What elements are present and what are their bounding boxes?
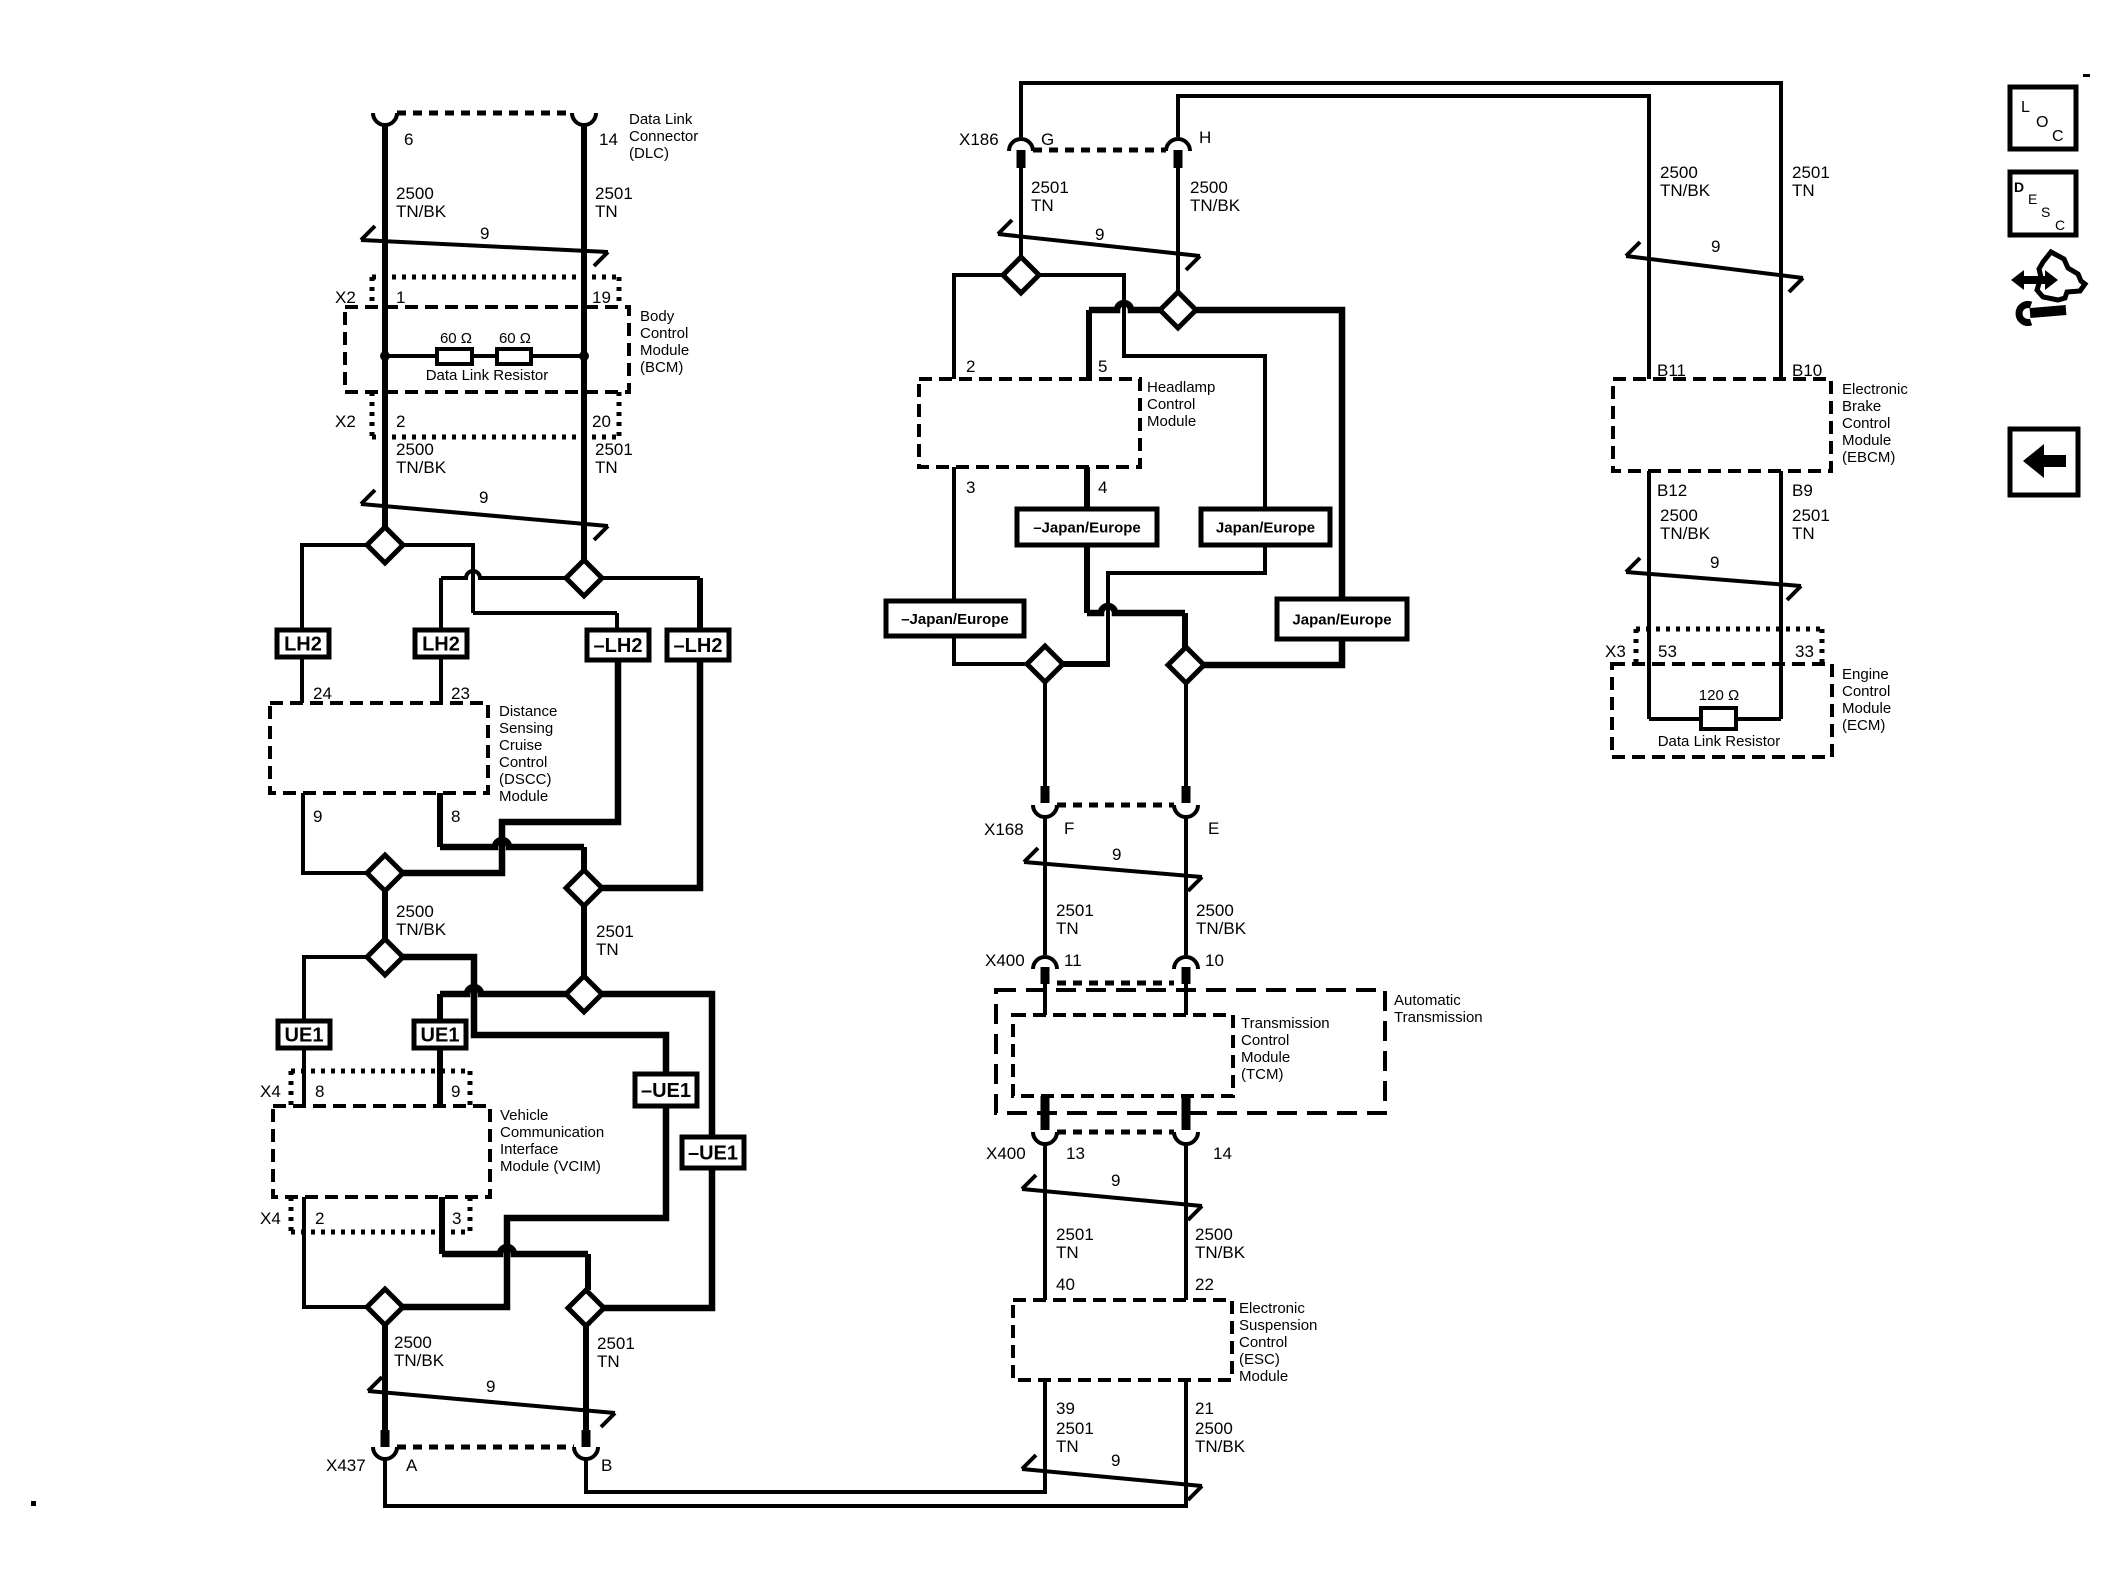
svg-text:X4: X4: [260, 1209, 281, 1228]
pin label 40: [1056, 1275, 1075, 1294]
svg-text:LH2: LH2: [422, 634, 460, 656]
splice diamond D1: [367, 1289, 403, 1325]
svg-text:H: H: [1199, 128, 1211, 147]
wire 2501 TN from X186 G over top to EBCM B10: [1021, 83, 1781, 379]
svg-text:Control: Control: [1241, 1032, 1289, 1049]
svg-text:40: 40: [1056, 1275, 1075, 1294]
pin label E: [1208, 819, 1219, 838]
wire 2500 TN/BK splice B1 to C1: [382, 891, 388, 939]
pin label H: [1199, 128, 1211, 147]
resistor label 120 ohm: [1699, 687, 1739, 704]
connector DLC dashed line: [397, 111, 572, 116]
pin label 3 VCIM: [452, 1209, 461, 1228]
svg-text:TN: TN: [595, 458, 618, 477]
svg-text:X400: X400: [985, 951, 1025, 970]
wire DSCC pin 9 to splice B1: [303, 793, 367, 873]
wire from splice A2 to LH2 option right with hop: [441, 571, 566, 630]
wire 2501 TN splice B2 to C2: [581, 906, 587, 976]
svg-text:X437: X437: [326, 1456, 366, 1475]
wire Japan/Europe upper to splice J3: [1062, 545, 1265, 664]
module label DSCC: [499, 703, 557, 805]
wire splice C2 right to -UE1 right option: [602, 994, 712, 1137]
connector label X2 row 2: [335, 412, 356, 431]
svg-text:9: 9: [1111, 1451, 1120, 1470]
svg-text:2500: 2500: [1660, 163, 1698, 182]
svg-text:2500: 2500: [396, 184, 434, 203]
wire data link resistor interconnect: [385, 354, 584, 358]
svg-text:60 Ω: 60 Ω: [440, 330, 472, 347]
wire UE1 right to VCIM pin 9: [437, 1048, 443, 1106]
twisted pair symbol 9 below X168: [1024, 845, 1202, 891]
connector X186 pin G cup: [1009, 139, 1033, 151]
svg-text:2500: 2500: [1196, 901, 1234, 920]
pin label 33: [1795, 642, 1814, 661]
svg-text:2: 2: [396, 412, 405, 431]
svg-text:X2: X2: [335, 288, 356, 307]
connector X400 row 1 stubs: [1041, 967, 1191, 984]
twisted pair symbol 9 above X437: [368, 1377, 615, 1427]
pin label 10: [1205, 951, 1224, 970]
node junction dot right on 2501 wire: [579, 351, 589, 361]
wire splice J2 right to Japan/Europe lower option: [1195, 310, 1342, 599]
wire -Japan/Europe lower left to splice J3: [954, 636, 1029, 664]
wire EBCM B12 to ECM 53: [1647, 471, 1651, 719]
resistor label 60 ohm right: [499, 330, 531, 347]
wire label 2501 TN X168: [1056, 901, 1094, 938]
svg-text:2501: 2501: [1056, 901, 1094, 920]
svg-text:Automatic: Automatic: [1394, 992, 1461, 1009]
svg-text:14: 14: [599, 130, 618, 149]
svg-text:X186: X186: [959, 130, 999, 149]
svg-text:1: 1: [396, 288, 405, 307]
wire Japan/Europe lower right to splice J4: [1203, 639, 1342, 665]
svg-text:TN/BK: TN/BK: [396, 920, 447, 939]
svg-text:2501: 2501: [1056, 1225, 1094, 1244]
wire X400 10 into TCM: [1184, 984, 1188, 1015]
wire VCIM pin 2 to splice D1: [304, 1197, 367, 1307]
svg-text:9: 9: [1111, 1171, 1120, 1190]
svg-text:TN/BK: TN/BK: [1195, 1243, 1246, 1262]
connector label X400 row 2: [986, 1144, 1026, 1163]
svg-text:C: C: [2052, 128, 2064, 145]
connector label X2 row 1: [335, 288, 356, 307]
wire 2500 TN/BK from DLC pin 6 to BCM: [382, 125, 388, 528]
pin label 5 headlamp: [1098, 357, 1107, 376]
splice diamond C2: [566, 976, 602, 1012]
option box Japan/Europe upper: [1201, 509, 1330, 545]
svg-text:20: 20: [592, 412, 611, 431]
wire splice J2 to Headlamp pin 5 with hop: [1089, 303, 1161, 379]
svg-text:S: S: [2041, 204, 2050, 220]
svg-text:8: 8: [451, 807, 460, 826]
pin label B12: [1657, 481, 1687, 500]
svg-text:Module: Module: [1842, 432, 1891, 449]
wire LH2 right to DSCC pin 23: [439, 657, 443, 703]
connector X400 row 1 cups: [1033, 957, 1198, 969]
wire label 2501 TN bottom: [597, 1334, 635, 1371]
svg-text:Module: Module: [1239, 1368, 1288, 1385]
svg-text:Module: Module: [499, 788, 548, 805]
svg-text:60 Ω: 60 Ω: [499, 330, 531, 347]
svg-text:–LH2: –LH2: [674, 635, 723, 657]
pin label 9 VCIM: [451, 1082, 460, 1101]
svg-text:9: 9: [1710, 553, 1719, 572]
svg-text:Headlamp: Headlamp: [1147, 379, 1215, 396]
svg-text:TN/BK: TN/BK: [394, 1351, 445, 1370]
svg-text:4: 4: [1098, 478, 1107, 497]
connector X186 pin H cup: [1166, 139, 1190, 151]
option box -UE1 left: [635, 1074, 697, 1106]
icon box back arrow: [2010, 429, 2078, 495]
mark bottom left: [31, 1501, 36, 1506]
connector X4 row 1 bracket: [291, 1071, 470, 1106]
svg-text:(ESC): (ESC): [1239, 1351, 1280, 1368]
svg-text:UE1: UE1: [421, 1025, 460, 1047]
svg-text:TN: TN: [1792, 524, 1815, 543]
svg-text:(ECM): (ECM): [1842, 717, 1885, 734]
wire LH2 left to DSCC pin 24: [300, 657, 304, 703]
wire VCIM pin 3 to splice D2 with hop: [442, 1197, 588, 1290]
svg-text:L: L: [2021, 99, 2030, 116]
svg-text:8: 8: [315, 1082, 324, 1101]
wire Headlamp pin 4 down: [1084, 467, 1090, 509]
pin label B10: [1792, 361, 1822, 380]
wire 2500 TN/BK X168 to X400: [1184, 817, 1188, 955]
connector label X400 row 1: [985, 951, 1025, 970]
svg-text:Japan/Europe: Japan/Europe: [1216, 519, 1315, 536]
svg-text:2500: 2500: [394, 1333, 432, 1352]
wire label 2501 TN below BCM: [595, 440, 633, 477]
svg-text:TN: TN: [596, 940, 619, 959]
pin label F: [1064, 819, 1074, 838]
resistor 120 ohm: [1701, 708, 1736, 729]
svg-text:Japan/Europe: Japan/Europe: [1292, 611, 1391, 628]
svg-text:Module: Module: [1842, 700, 1891, 717]
connector DLC pin 14 terminal cup: [572, 113, 596, 125]
svg-text:F: F: [1064, 819, 1074, 838]
splice diamond J3 on 2501: [1027, 646, 1063, 682]
module box Electronic Brake Control Module dashed: [1613, 379, 1831, 471]
module box Automatic Transmission outer dashed: [996, 990, 1385, 1113]
svg-text:2501: 2501: [595, 184, 633, 203]
svg-text:2: 2: [315, 1209, 324, 1228]
svg-text:120 Ω: 120 Ω: [1699, 687, 1739, 704]
wire splice C1 to UE1 left option: [304, 957, 367, 1021]
pin label 2: [396, 412, 405, 431]
svg-text:TN: TN: [1792, 181, 1815, 200]
svg-text:TN/BK: TN/BK: [1196, 919, 1247, 938]
twisted pair symbol 9 below X186: [998, 220, 1200, 270]
wire label 2500 TN/BK: [396, 184, 447, 221]
splice diamond B2: [566, 870, 602, 906]
wire label 2501 TN X186: [1031, 178, 1069, 215]
svg-text:Cruise: Cruise: [499, 737, 542, 754]
svg-text:(DSCC): (DSCC): [499, 771, 552, 788]
svg-text:B9: B9: [1792, 481, 1813, 500]
wire 120 ohm resistor interconnect: [1649, 717, 1781, 721]
option box -UE1 right: [682, 1137, 744, 1168]
svg-text:24: 24: [313, 684, 332, 703]
wire label 2501 TN: [595, 184, 633, 221]
svg-text:X2: X2: [335, 412, 356, 431]
svg-text:TN: TN: [597, 1352, 620, 1371]
module box Headlamp Control Module dashed: [919, 379, 1140, 467]
pin label 2 headlamp: [966, 357, 975, 376]
wire X437 A to ESC pin 21: [385, 1380, 1186, 1506]
node junction dot left on 2500 wire: [380, 351, 390, 361]
svg-text:9: 9: [1711, 237, 1720, 256]
wire -UE1 right option to splice D2: [604, 1168, 712, 1308]
svg-text:Brake: Brake: [1842, 398, 1881, 415]
icon double arrow with outline and wrench: [2011, 252, 2085, 323]
connector label X168: [984, 820, 1024, 839]
splice diamond J1 on 2501: [1003, 257, 1039, 293]
module label Automatic Transmission: [1394, 992, 1483, 1026]
wire -Japan/Europe upper to splice J4 with hop: [1087, 545, 1185, 648]
svg-text:9: 9: [313, 807, 322, 826]
svg-text:2500: 2500: [396, 440, 434, 459]
svg-text:2500: 2500: [1660, 506, 1698, 525]
connector X186 dashed line: [1033, 148, 1166, 153]
connector X437 stubs: [381, 1430, 591, 1447]
module label EBCM: [1842, 381, 1908, 466]
wire label 2501 TN EBCM top: [1792, 163, 1830, 200]
wire splice J1 to Headlamp pin 2: [954, 275, 1004, 379]
connector X437 pin B cup: [574, 1447, 598, 1459]
pin label G: [1041, 130, 1054, 149]
connector label X4 row 1: [260, 1082, 281, 1101]
svg-text:2501: 2501: [1056, 1419, 1094, 1438]
svg-text:3: 3: [966, 478, 975, 497]
wire label 2500 TN/BK mid: [396, 902, 447, 939]
svg-text:Communication: Communication: [500, 1124, 604, 1141]
splice diamond J2 on 2500: [1160, 292, 1196, 328]
svg-text:Data Link Resistor: Data Link Resistor: [1658, 733, 1781, 750]
svg-text:22: 22: [1195, 1275, 1214, 1294]
wire label 2501 TN below EBCM: [1792, 506, 1830, 543]
pin label 24: [313, 684, 332, 703]
wire label 2500 TN/BK X186: [1190, 178, 1241, 215]
module box Transmission Control Module dashed: [1013, 1015, 1233, 1096]
connector X400 row 2 cups: [1033, 1132, 1198, 1144]
resistor 60 ohm right: [497, 349, 531, 364]
connector X168 dashed line: [1057, 803, 1174, 808]
module box VCIM dashed: [273, 1106, 490, 1197]
splice diamond J4 on 2500: [1168, 647, 1204, 683]
svg-text:3: 3: [452, 1209, 461, 1228]
svg-text:TN/BK: TN/BK: [1660, 181, 1711, 200]
icon box DESC: [2010, 172, 2076, 235]
pin label 53: [1658, 642, 1677, 661]
wire X186 G to splice J1: [1019, 168, 1023, 258]
splice diamond A1 on 2500 wire: [367, 527, 403, 563]
connector X400 row 2 stubs: [1041, 1096, 1191, 1130]
svg-text:G: G: [1041, 130, 1054, 149]
svg-text:9: 9: [1112, 845, 1121, 864]
wire label 2500 TN/BK X168: [1196, 901, 1247, 938]
pin label 19: [592, 288, 611, 307]
svg-text:5: 5: [1098, 357, 1107, 376]
svg-text:13: 13: [1066, 1144, 1085, 1163]
svg-text:Control: Control: [1842, 415, 1890, 432]
svg-text:2501: 2501: [1031, 178, 1069, 197]
module box Distance Sensing Cruise Control dashed: [270, 703, 488, 793]
svg-text:Data Link Resistor: Data Link Resistor: [426, 367, 549, 384]
wire 2500 TN/BK from X186 H over top to EBCM B11: [1178, 96, 1649, 379]
option box LH2 left: [277, 630, 329, 657]
pin label 2 VCIM: [315, 1209, 324, 1228]
pin label 13: [1066, 1144, 1085, 1163]
svg-text:UE1: UE1: [285, 1025, 324, 1047]
wire label 2501 TN mid: [596, 922, 634, 959]
connector label X186: [959, 130, 999, 149]
wire label 2501 TN to ESC: [1056, 1225, 1094, 1262]
svg-text:Module: Module: [1241, 1049, 1290, 1066]
connector X168 pin E cup: [1174, 805, 1198, 817]
module label ESC: [1239, 1300, 1317, 1385]
pin label 6: [404, 130, 413, 149]
wire 2501 TN X400 to ESC pin 40: [1043, 1144, 1047, 1300]
icon box LOC: [2010, 87, 2076, 149]
option box -Japan/Europe upper: [1017, 509, 1157, 545]
svg-text:Module (VCIM): Module (VCIM): [500, 1158, 601, 1175]
svg-text:Connector: Connector: [629, 128, 698, 145]
svg-text:Interface: Interface: [500, 1141, 558, 1158]
connector X400 row 2 dashed line: [1057, 1130, 1174, 1135]
svg-text:D: D: [2014, 179, 2024, 195]
mark top right: [2083, 74, 2090, 77]
connector X168 stubs: [1041, 786, 1191, 803]
module label Data Link Connector (DLC): [629, 111, 698, 162]
pin label 3 headlamp: [966, 478, 975, 497]
svg-text:TN/BK: TN/BK: [1195, 1437, 1246, 1456]
svg-text:Control: Control: [1239, 1334, 1287, 1351]
wire -LH2 right option to splice B2: [602, 660, 700, 888]
option box UE1 right: [414, 1021, 466, 1048]
svg-text:A: A: [406, 1456, 418, 1475]
pin label B: [601, 1456, 612, 1475]
svg-text:23: 23: [451, 684, 470, 703]
svg-text:–Japan/Europe: –Japan/Europe: [1033, 519, 1141, 536]
svg-text:Sensing: Sensing: [499, 720, 553, 737]
svg-text:39: 39: [1056, 1399, 1075, 1418]
twisted pair symbol 9 below X400: [1022, 1171, 1202, 1220]
svg-text:(DLC): (DLC): [629, 145, 669, 162]
pin label 14: [599, 130, 618, 149]
svg-text:X3: X3: [1605, 642, 1626, 661]
svg-text:Data Link: Data Link: [629, 111, 693, 128]
svg-text:TN: TN: [1056, 919, 1079, 938]
pin label 20: [592, 412, 611, 431]
option box -LH2 right: [667, 630, 729, 660]
svg-text:2: 2: [966, 357, 975, 376]
option box Japan/Europe lower right: [1277, 599, 1407, 639]
svg-text:Control: Control: [499, 754, 547, 771]
module label Body Control Module (BCM): [640, 308, 689, 376]
svg-text:2501: 2501: [595, 440, 633, 459]
splice diamond B1: [367, 855, 403, 891]
pin label 22: [1195, 1275, 1214, 1294]
pin label A: [406, 1456, 418, 1475]
svg-text:TN/BK: TN/BK: [1660, 524, 1711, 543]
wire label 2500 TN/BK bottom: [394, 1333, 445, 1370]
wire EBCM B9 to ECM 33: [1779, 471, 1783, 719]
svg-text:33: 33: [1795, 642, 1814, 661]
svg-text:Electronic: Electronic: [1239, 1300, 1305, 1317]
option box UE1 left: [278, 1021, 330, 1048]
svg-text:Engine: Engine: [1842, 666, 1889, 683]
twisted pair symbol 9 below DLC: [361, 224, 608, 266]
svg-text:21: 21: [1195, 1399, 1214, 1418]
module label TCM: [1241, 1015, 1330, 1083]
wire label 2500 TN/BK EBCM top: [1660, 163, 1711, 200]
svg-text:Transmission: Transmission: [1241, 1015, 1330, 1032]
svg-text:11: 11: [1064, 951, 1082, 970]
pin label 9 DSCC: [313, 807, 322, 826]
svg-text:9: 9: [480, 224, 489, 243]
svg-text:X168: X168: [984, 820, 1024, 839]
svg-text:Body: Body: [640, 308, 675, 325]
svg-text:2501: 2501: [1792, 163, 1830, 182]
svg-text:TN: TN: [595, 202, 618, 221]
svg-text:53: 53: [1658, 642, 1677, 661]
svg-text:B: B: [601, 1456, 612, 1475]
svg-text:(TCM): (TCM): [1241, 1066, 1283, 1083]
twisted pair symbol 9 below ESC: [1022, 1451, 1202, 1500]
svg-text:–LH2: –LH2: [594, 635, 643, 657]
wire 2501 TN splice D2 to X437 B: [583, 1326, 589, 1431]
svg-text:(BCM): (BCM): [640, 359, 683, 376]
svg-text:Module: Module: [1147, 413, 1196, 430]
svg-text:Module: Module: [640, 342, 689, 359]
wire 2501 TN X168 to X400: [1043, 817, 1047, 955]
option box -Japan/Europe lower left: [886, 601, 1024, 636]
wire splice C1 right to -UE1 left option: [403, 957, 666, 1074]
svg-text:19: 19: [592, 288, 611, 307]
svg-text:TN/BK: TN/BK: [1190, 196, 1241, 215]
pin label 39: [1056, 1399, 1075, 1418]
pin label 1: [396, 288, 405, 307]
svg-text:Control: Control: [1147, 396, 1195, 413]
pin label 21: [1195, 1399, 1214, 1418]
pin label 8 VCIM: [315, 1082, 324, 1101]
wire 2500 TN/BK splice D1 to X437 A: [382, 1325, 388, 1431]
wire label 2501 TN below ESC: [1056, 1419, 1094, 1456]
module label ECM: [1842, 666, 1891, 734]
wire X437 B to ESC pin 39: [586, 1380, 1045, 1492]
connector label X4 row 2: [260, 1209, 281, 1228]
pin label 4 headlamp: [1098, 478, 1107, 497]
wire 2500 TN/BK X400 to ESC pin 22: [1184, 1144, 1188, 1300]
svg-text:2501: 2501: [596, 922, 634, 941]
wire label 2500 TN/BK below BCM: [396, 440, 447, 477]
wire Headlamp pin 3 down: [952, 467, 956, 601]
module box Electronic Suspension Control dashed: [1013, 1300, 1232, 1380]
svg-text:2501: 2501: [1792, 506, 1830, 525]
wire X186 H to splice J2: [1176, 168, 1180, 293]
wire from splice A1 right to -LH2 option: [403, 545, 617, 630]
splice diamond D2: [568, 1290, 604, 1326]
svg-text:Electronic: Electronic: [1842, 381, 1908, 398]
wire splice J4 to X168 E: [1184, 683, 1188, 788]
svg-text:2500: 2500: [1195, 1419, 1233, 1438]
module box Body Control Module dashed: [345, 307, 629, 392]
svg-text:TN: TN: [1056, 1437, 1079, 1456]
svg-text:TN/BK: TN/BK: [396, 202, 447, 221]
wire -UE1 left option to splice D1: [403, 1106, 666, 1307]
svg-text:E: E: [2028, 191, 2037, 207]
wire label 2500 TN/BK to ESC: [1195, 1225, 1246, 1262]
